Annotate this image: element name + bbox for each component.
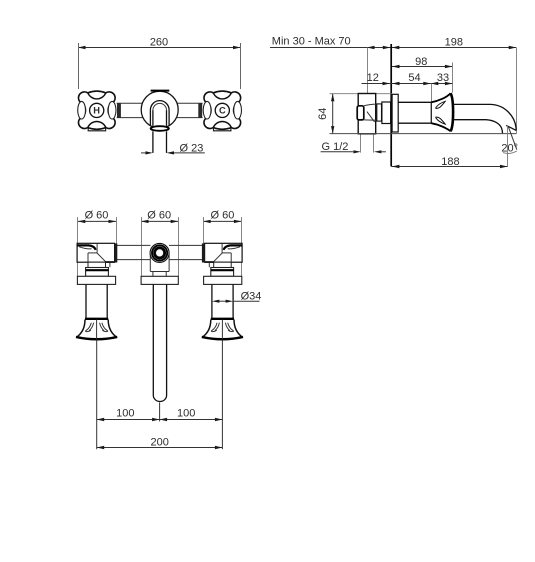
svg-text:98: 98 <box>415 56 427 68</box>
svg-text:20°: 20° <box>501 142 518 154</box>
svg-text:12: 12 <box>367 72 379 84</box>
svg-text:100: 100 <box>116 407 134 419</box>
svg-text:Ø 60: Ø 60 <box>85 209 109 221</box>
svg-text:Ø 23: Ø 23 <box>180 142 204 154</box>
svg-text:198: 198 <box>445 37 463 49</box>
svg-text:64: 64 <box>317 108 329 120</box>
svg-text:188: 188 <box>441 156 459 168</box>
svg-text:200: 200 <box>151 436 169 448</box>
svg-text:Ø 60: Ø 60 <box>147 209 171 221</box>
svg-text:100: 100 <box>177 407 195 419</box>
svg-text:Ø34: Ø34 <box>241 291 262 303</box>
svg-text:C: C <box>219 106 226 116</box>
svg-text:H: H <box>93 106 100 116</box>
svg-text:260: 260 <box>150 37 168 49</box>
svg-text:Ø 60: Ø 60 <box>210 209 234 221</box>
svg-text:54: 54 <box>408 72 420 84</box>
svg-text:Min 30 - Max 70: Min 30 - Max 70 <box>272 36 351 48</box>
